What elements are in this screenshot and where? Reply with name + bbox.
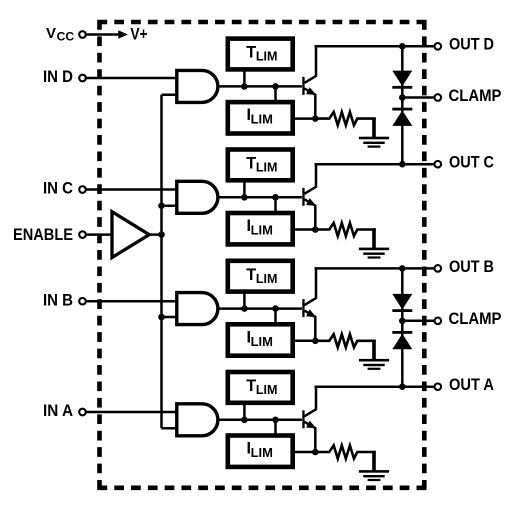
resistor R4 (emitter A) <box>316 445 376 458</box>
wire I_LIM D stub <box>274 86 277 101</box>
wire T_LIM B stub <box>243 293 246 309</box>
wire I_LIM A output to emitter node <box>293 451 316 454</box>
junction dot emitter node B <box>312 338 319 345</box>
wire IN D to gate <box>86 77 177 80</box>
svg-text:IN C: IN C <box>43 180 73 198</box>
terminal ENABLE <box>79 231 86 238</box>
terminal CLAMP 1 <box>435 94 442 101</box>
svg-text:LIM: LIM <box>251 223 273 238</box>
wire collector A to OUT A <box>315 385 435 388</box>
terminal OUT A <box>435 383 442 390</box>
wire T_LIM C stub <box>243 181 246 197</box>
svg-text:LIM: LIM <box>256 160 278 175</box>
svg-text:LIM: LIM <box>251 112 273 127</box>
wire I_LIM C stub <box>274 197 277 212</box>
wire collector C to OUT C <box>315 163 435 166</box>
terminal OUT C <box>435 161 442 168</box>
wire buffer output to enable bus <box>147 233 162 236</box>
dashed box IC outline <box>98 20 427 490</box>
junction dot I_LIM stub C <box>272 194 279 201</box>
svg-text:OUT A: OUT A <box>449 376 494 394</box>
terminal IN B <box>79 298 86 305</box>
AND gate D <box>177 70 218 102</box>
wire I_LIM D output to emitter node <box>293 117 316 120</box>
svg-text:T: T <box>246 155 256 173</box>
wire ENABLE input <box>86 233 112 236</box>
wire gate B output to base of Q3 <box>218 307 302 310</box>
transistor Q3 collector <box>304 268 316 305</box>
buffer U5 (enable) <box>112 212 149 258</box>
block T_LIM C <box>228 150 293 181</box>
wire enable stub gate A <box>162 427 179 430</box>
wire enable stub gate D <box>162 94 179 97</box>
terminal OUT D <box>435 43 442 50</box>
block T_LIM D <box>228 39 293 70</box>
ground C <box>359 228 389 258</box>
svg-text:LIM: LIM <box>256 382 278 397</box>
junction dot emitter node C <box>312 226 319 233</box>
block I_LIM B <box>228 324 293 355</box>
wire VCC to V+ arrow <box>86 33 120 36</box>
transistor Q2 emitter <box>304 199 315 229</box>
junction dot emitter node A <box>312 449 319 456</box>
clamp diode D4 (cathode CLAMP side) <box>392 331 412 349</box>
svg-text:IN B: IN B <box>43 291 73 309</box>
wire gate C output to base of Q2 <box>218 196 302 199</box>
resistor R2 (emitter C) <box>316 223 376 236</box>
wire gate A output to base of Q4 <box>218 419 302 422</box>
transistor Q3 emitter arrow <box>306 309 316 317</box>
junction dot enable bus at buffer <box>158 231 165 238</box>
junction dot enable bus B <box>158 314 165 321</box>
wire enable bus vertical <box>160 95 163 428</box>
svg-text:OUT B: OUT B <box>449 258 494 276</box>
transistor Q4 emitter <box>304 422 315 452</box>
wire T_LIM A stub <box>243 404 246 420</box>
block T_LIM A <box>228 372 293 403</box>
junction dot I_LIM stub D <box>272 83 279 90</box>
terminal CLAMP 2 <box>435 318 442 325</box>
junction dot CLAMP 1 <box>399 94 406 101</box>
AND gate B <box>177 293 218 325</box>
junction dot I_LIM stub A <box>272 417 279 424</box>
junction dot enable bus C <box>158 202 165 209</box>
wire IN B to gate <box>86 300 177 303</box>
svg-text:T: T <box>246 377 256 395</box>
terminal OUT B <box>435 265 442 272</box>
svg-text:V+: V+ <box>130 26 147 44</box>
wire IN A to gate <box>86 411 177 414</box>
wire I_LIM A stub <box>274 420 277 435</box>
wire enable stub gate B <box>162 316 179 319</box>
clamp diode D1 (anode OUT side) <box>392 71 412 89</box>
terminal IN C <box>79 186 86 193</box>
svg-text:V: V <box>46 25 56 42</box>
transistor Q1 base bar <box>302 77 304 95</box>
wire CLAMP 1 stub <box>402 96 434 99</box>
wire I_LIM C output to emitter node <box>293 228 316 231</box>
wire CLAMP 2 stub <box>402 320 434 323</box>
wire T_LIM D stub <box>243 70 246 86</box>
junction dot OUT B / clamp chain <box>399 265 406 272</box>
junction dot T_LIM stub D <box>241 83 248 90</box>
svg-text:CLAMP: CLAMP <box>449 87 502 105</box>
svg-text:T: T <box>246 266 256 284</box>
terminal IN A <box>79 409 86 416</box>
svg-text:IN D: IN D <box>43 68 73 86</box>
resistor R1 (emitter D) <box>316 112 376 125</box>
wire collector D to OUT D <box>315 45 435 48</box>
junction dot T_LIM stub A <box>241 417 248 424</box>
terminal VCC <box>79 31 86 38</box>
junction dot CLAMP 2 <box>399 318 406 325</box>
junction dot OUT C / clamp chain <box>399 161 406 168</box>
svg-text:LIM: LIM <box>256 49 278 64</box>
transistor Q1 emitter arrow <box>306 87 316 95</box>
resistor R3 (emitter B) <box>316 334 376 347</box>
transistor Q4 emitter arrow <box>306 421 316 429</box>
transistor Q2 emitter arrow <box>306 198 316 206</box>
transistor Q4 collector <box>304 387 316 417</box>
junction dot I_LIM stub B <box>272 305 279 312</box>
block T_LIM B <box>228 261 293 292</box>
ground B <box>359 340 389 370</box>
svg-text:ENABLE: ENABLE <box>13 226 73 244</box>
transistor Q1 emitter <box>304 88 315 118</box>
terminal IN D <box>79 75 86 82</box>
svg-text:IN A: IN A <box>43 402 73 420</box>
transistor Q2 base bar <box>302 188 304 206</box>
wire clamp chain 2 <box>401 268 404 386</box>
transistor Q3 base bar <box>302 299 304 317</box>
svg-text:LIM: LIM <box>251 334 273 349</box>
ground D <box>359 117 389 147</box>
transistor Q1 collector <box>304 46 316 83</box>
wire IN C to gate <box>86 188 177 191</box>
junction dot emitter node D <box>312 115 319 122</box>
block I_LIM D <box>228 102 293 133</box>
transistor Q3 emitter <box>304 311 315 341</box>
svg-text:CLAMP: CLAMP <box>449 310 502 328</box>
wire collector B to OUT B <box>315 267 435 270</box>
wire gate D output to base of Q1 <box>218 85 302 88</box>
junction dot OUT D / clamp chain <box>399 43 406 50</box>
clamp diode D3 (anode OUT side) <box>392 294 412 312</box>
arrowhead V+ <box>118 30 128 38</box>
block I_LIM C <box>228 213 293 244</box>
svg-text:CC: CC <box>57 32 75 44</box>
junction dot T_LIM stub B <box>241 305 248 312</box>
junction dot OUT A / clamp chain <box>399 383 406 390</box>
clamp diode D2 (cathode CLAMP side) <box>392 108 412 126</box>
svg-text:OUT C: OUT C <box>449 154 494 172</box>
wire clamp chain 1 <box>401 46 404 164</box>
wire I_LIM B output to emitter node <box>293 340 316 343</box>
svg-text:OUT D: OUT D <box>449 36 494 54</box>
AND gate C <box>177 181 218 213</box>
svg-text:T: T <box>246 44 256 62</box>
svg-text:LIM: LIM <box>251 445 273 460</box>
ground A <box>359 451 389 481</box>
AND gate A <box>177 404 218 436</box>
transistor Q2 collector <box>304 164 316 194</box>
wire I_LIM B stub <box>274 309 277 324</box>
transistor Q4 base bar <box>302 410 304 428</box>
block I_LIM A <box>228 436 293 467</box>
junction dot T_LIM stub C <box>241 194 248 201</box>
wire enable stub gate C <box>162 204 179 207</box>
svg-text:LIM: LIM <box>256 271 278 286</box>
